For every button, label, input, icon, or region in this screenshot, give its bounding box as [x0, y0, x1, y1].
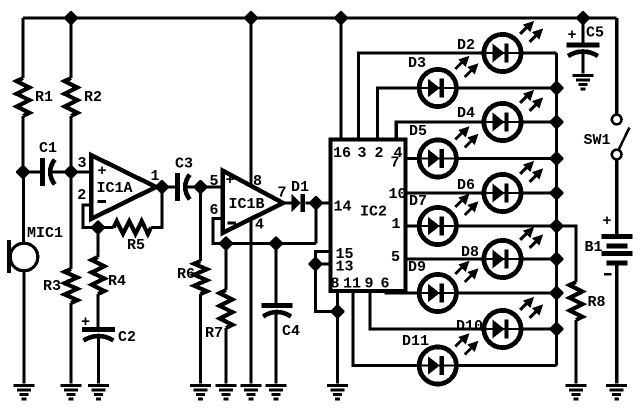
- svg-text:13: 13: [336, 259, 354, 276]
- svg-text:D5: D5: [409, 123, 427, 140]
- wire D7 to bus: [456, 224, 557, 227]
- resistor R3: [65, 269, 78, 303]
- label pin 11 IC2: [343, 276, 361, 293]
- svg-text:7: 7: [278, 185, 287, 202]
- svg-text:D4: D4: [457, 105, 475, 122]
- wire D3 to bus: [456, 86, 557, 89]
- node bus D3: [551, 82, 563, 94]
- svg-text:D11: D11: [402, 333, 429, 350]
- label pin 6 IC1B: [210, 202, 219, 219]
- capacitor C4: [262, 303, 293, 317]
- svg-text:1: 1: [151, 168, 160, 185]
- svg-text:8: 8: [331, 276, 340, 293]
- svg-text:3: 3: [358, 145, 367, 162]
- svg-text:14: 14: [334, 199, 352, 216]
- wire R7 to ground: [224, 328, 227, 384]
- resistor R5: [114, 221, 151, 234]
- label R3: [43, 278, 61, 295]
- wire feedback node to R4: [96, 228, 99, 258]
- label D6: [457, 177, 475, 194]
- wire D10 to bus: [521, 327, 557, 330]
- LED D10: [484, 298, 542, 348]
- wire rail to R2: [69, 18, 72, 78]
- wire top supply rail: [23, 16, 617, 19]
- node C1 left junction: [17, 166, 29, 178]
- microphone MIC1: [7, 240, 38, 273]
- svg-text:8: 8: [253, 173, 262, 190]
- wire pin 15: [316, 252, 338, 312]
- wire rail to R1: [21, 18, 24, 78]
- label pin 13 IC2: [336, 259, 354, 276]
- wire pin 4 to D4: [396, 122, 483, 140]
- label D8: [461, 244, 479, 261]
- label D5: [409, 123, 427, 140]
- wire R1 to node C1 left: [21, 116, 24, 174]
- wire pin 11 to D11: [353, 291, 420, 365]
- svg-text:SW1: SW1: [584, 132, 611, 149]
- wire R8 to ground: [574, 320, 577, 384]
- svg-text:MIC1: MIC1: [27, 225, 63, 242]
- label R2: [84, 89, 102, 106]
- LED D5: [419, 128, 477, 178]
- label C3: [175, 156, 193, 173]
- resistor R1: [17, 78, 30, 116]
- label MIC1: [27, 225, 63, 242]
- resistor R6: [194, 261, 207, 294]
- resistor R4: [92, 257, 105, 294]
- svg-text:4: 4: [255, 217, 264, 234]
- wire R6 to ground: [199, 294, 202, 384]
- label IC1B: [229, 196, 265, 213]
- svg-text:5: 5: [210, 173, 219, 190]
- svg-text:R2: R2: [84, 89, 102, 106]
- svg-text:6: 6: [210, 202, 219, 219]
- label pin 14 IC2: [334, 199, 352, 216]
- svg-text:7: 7: [391, 155, 400, 172]
- ground R8: [566, 384, 587, 400]
- label C5 plus: [568, 27, 577, 44]
- svg-text:IC1A: IC1A: [97, 180, 133, 197]
- svg-text:R5: R5: [127, 237, 145, 254]
- ground R3: [61, 384, 82, 400]
- wire SW1 to B1: [615, 160, 618, 235]
- wire bus to R8: [557, 226, 577, 282]
- svg-text:B1: B1: [585, 239, 603, 256]
- wire pin 1 to D7: [406, 224, 420, 227]
- svg-text:C5: C5: [586, 25, 604, 42]
- wire node to pin 5: [201, 185, 223, 188]
- wire node to C4: [274, 244, 277, 305]
- label B1: [585, 239, 603, 256]
- label pin 15 IC2: [336, 246, 354, 263]
- label C1: [39, 140, 57, 157]
- label D4: [457, 105, 475, 122]
- node bus D8: [551, 253, 563, 265]
- wire D11 to bus: [456, 364, 557, 367]
- switch SW1: [612, 115, 630, 160]
- ground B1: [606, 384, 627, 400]
- node bus D6: [551, 187, 563, 199]
- ground C4: [266, 384, 287, 400]
- label pin 2 IC2: [375, 145, 384, 162]
- ground MIC1: [14, 384, 35, 400]
- wire D6 to bus: [521, 191, 557, 194]
- wire D2 to bus: [521, 51, 557, 54]
- label D9: [408, 259, 426, 276]
- node junction top rail x341: [335, 12, 347, 24]
- wire pin 10 to D6: [406, 191, 484, 194]
- node bus D4: [551, 116, 563, 128]
- wire R3 to ground: [69, 303, 72, 384]
- label pin 7 IC1B: [278, 185, 287, 202]
- label C4: [282, 323, 300, 340]
- node IC1B input: [195, 181, 207, 193]
- svg-text:11: 11: [343, 276, 361, 293]
- node junction top rail x583: [577, 12, 589, 24]
- label D2: [457, 37, 475, 54]
- wire D4 to bus: [521, 120, 557, 123]
- label D3: [408, 55, 426, 72]
- svg-text:R4: R4: [108, 273, 126, 290]
- wire D1 to node: [306, 201, 317, 204]
- wire pin 8 to ground: [336, 291, 339, 383]
- ground C5: [573, 74, 594, 90]
- wire D9 to bus: [456, 291, 557, 294]
- wire pin 13: [316, 262, 331, 265]
- svg-text:D10: D10: [456, 318, 483, 335]
- wire pin 9 to D10: [370, 291, 484, 329]
- node pins 15-13: [310, 258, 322, 270]
- svg-text:5: 5: [391, 249, 400, 266]
- LED D3: [419, 57, 477, 107]
- LED D4: [484, 91, 542, 141]
- LED D11: [419, 335, 477, 385]
- label SW1: [584, 132, 611, 149]
- node R7 tap: [220, 238, 232, 250]
- svg-text:R1: R1: [35, 89, 53, 106]
- label IC1A minus input: [98, 200, 106, 203]
- label D1: [291, 179, 309, 196]
- wire C1 to input node: [50, 170, 71, 173]
- svg-text:16: 16: [333, 145, 351, 162]
- node bus D7: [551, 220, 563, 232]
- wire node to IC2 pin 14: [316, 201, 331, 204]
- svg-text:D7: D7: [409, 193, 427, 210]
- svg-text:+: +: [603, 213, 612, 230]
- label pin 3 IC1A: [78, 155, 87, 172]
- node bus D5: [551, 153, 563, 165]
- op-amp IC1A: [91, 155, 156, 219]
- wire pin 16 to rail: [339, 18, 342, 140]
- ground C2: [88, 384, 109, 400]
- svg-text:C3: C3: [175, 156, 193, 173]
- LED D7: [419, 195, 477, 245]
- label IC1A plus input: [98, 163, 107, 180]
- wire C2 to ground: [97, 338, 100, 384]
- svg-text:R7: R7: [205, 325, 223, 342]
- svg-text:6: 6: [381, 276, 390, 293]
- wire R5 to output riser: [151, 187, 162, 228]
- label IC1B plus input: [226, 172, 235, 189]
- ground R6: [190, 384, 211, 400]
- node bus D9: [551, 287, 563, 299]
- capacitor C5: [567, 43, 600, 57]
- label R8: [588, 294, 606, 311]
- svg-text:IC2: IC2: [360, 204, 387, 221]
- wire C3 to node 5: [185, 185, 201, 188]
- node feedback IC1A: [92, 222, 104, 234]
- label pin 5 IC1B: [210, 173, 219, 190]
- svg-text:D1: D1: [291, 179, 309, 196]
- svg-text:C1: C1: [39, 140, 57, 157]
- wire D8 to bus: [521, 257, 557, 260]
- node input junction: [65, 166, 77, 178]
- wire pin 5 to D8: [406, 257, 484, 260]
- wire pin 1 output: [156, 185, 175, 188]
- ground IC2: [327, 384, 348, 400]
- wire pin 4 to ground: [249, 219, 252, 384]
- label IC1B minus input: [228, 222, 237, 225]
- label pin 4 IC2: [394, 145, 403, 162]
- capacitor C3: [175, 173, 190, 201]
- wire node to R7: [224, 244, 227, 291]
- LED D6: [484, 162, 542, 212]
- wire pin 2 feedback: [83, 205, 98, 228]
- wire node to R5: [98, 226, 114, 229]
- diode D1: [292, 194, 305, 212]
- svg-text:C4: C4: [282, 323, 300, 340]
- label C2: [118, 329, 136, 346]
- capacitor C2: [82, 327, 115, 341]
- label C2 plus: [81, 314, 90, 331]
- svg-text:1: 1: [392, 216, 401, 233]
- wire pin 2 to D3: [377, 88, 419, 140]
- resistor R7: [220, 290, 233, 328]
- node pin 8 ground tie: [332, 306, 344, 318]
- label IC2: [360, 204, 387, 221]
- wire pin 6 to D9: [386, 291, 420, 293]
- wire C5 to ground: [581, 53, 584, 74]
- svg-text:R6: R6: [177, 266, 195, 283]
- ground pin 4 IC1B: [241, 384, 262, 400]
- label pin 7 IC2: [391, 155, 400, 172]
- wire node down to MIC1: [22, 172, 25, 244]
- wire rail to C5: [581, 18, 584, 43]
- label R5: [127, 237, 145, 254]
- wire pin 7 to D1: [283, 201, 292, 204]
- ground R7: [216, 384, 237, 400]
- svg-text:C2: C2: [118, 329, 136, 346]
- wire input node to pin 3: [71, 170, 91, 173]
- label pin 1 IC2: [392, 216, 401, 233]
- wire C4 to ground: [274, 314, 277, 384]
- wire pin 8 to rail: [249, 18, 252, 186]
- wire pin 3 to D2: [358, 53, 483, 140]
- LED D8: [484, 228, 542, 278]
- label R7: [205, 325, 223, 342]
- label pin 6 IC2: [381, 276, 390, 293]
- svg-text:2: 2: [375, 145, 384, 162]
- label pin 8 IC1B: [253, 173, 262, 190]
- wire node to C1: [23, 170, 40, 173]
- resistor R8: [570, 282, 583, 320]
- label B1 plus: [603, 213, 612, 230]
- op-amp IC1B: [223, 171, 284, 234]
- label IC1A: [97, 180, 133, 197]
- wire MIC1 to ground: [22, 271, 25, 384]
- label pin 8 IC2: [331, 276, 340, 293]
- wire R2 to node input: [69, 116, 72, 174]
- svg-text:D6: D6: [457, 177, 475, 194]
- label D11: [402, 333, 429, 350]
- label D10: [456, 318, 483, 335]
- node junction top rail x71: [65, 12, 77, 24]
- node junction top rail x251: [245, 12, 257, 24]
- label C5: [586, 25, 604, 42]
- label pin 2 IC1A: [77, 187, 86, 204]
- LED D9: [419, 262, 477, 312]
- label pin 1 IC1A: [151, 168, 160, 185]
- svg-text:+: +: [568, 27, 577, 44]
- wire input node down to R3: [69, 172, 72, 269]
- node bus D10: [551, 323, 563, 335]
- label D7: [409, 193, 427, 210]
- wire LED cathode bus: [555, 53, 558, 366]
- svg-text:10: 10: [389, 186, 407, 203]
- label pin 3 IC2: [358, 145, 367, 162]
- svg-text:+: +: [98, 163, 107, 180]
- resistor R2: [65, 78, 78, 116]
- wire rail corner to SW1: [615, 18, 618, 115]
- node C4 tap: [270, 238, 282, 250]
- wire pin 6 feedback: [213, 219, 316, 244]
- label R4: [108, 273, 126, 290]
- battery B1: [602, 234, 633, 266]
- svg-text:2: 2: [77, 187, 86, 204]
- label pin 9 IC2: [365, 276, 374, 293]
- svg-text:D9: D9: [408, 259, 426, 276]
- label pin 5 IC2: [391, 249, 400, 266]
- svg-text:D8: D8: [461, 244, 479, 261]
- wire B1 to ground: [615, 266, 618, 384]
- label B1 minus: [604, 273, 612, 276]
- label pin 10 IC2: [389, 186, 407, 203]
- svg-text:D3: D3: [408, 55, 426, 72]
- label R6: [177, 266, 195, 283]
- node D1 output: [310, 197, 322, 209]
- svg-text:3: 3: [78, 155, 87, 172]
- svg-text:9: 9: [365, 276, 374, 293]
- capacitor C1: [40, 158, 55, 186]
- svg-text:D2: D2: [457, 37, 475, 54]
- wire D5 to bus: [456, 157, 557, 160]
- svg-text:IC1B: IC1B: [229, 196, 265, 213]
- svg-text:R8: R8: [588, 294, 606, 311]
- svg-text:+: +: [226, 172, 235, 189]
- label pin 16 IC2: [333, 145, 351, 162]
- label R1: [35, 89, 53, 106]
- wire node down to R6: [199, 187, 202, 261]
- wire node down to feedback: [314, 203, 317, 244]
- IC U2 body: [331, 140, 406, 292]
- node output IC1A: [156, 181, 168, 193]
- label pin 4 IC1B: [255, 217, 264, 234]
- wire pin 7 to D5: [406, 157, 420, 160]
- wire R4 to C2: [96, 294, 99, 328]
- svg-text:R3: R3: [43, 278, 61, 295]
- LED D2: [484, 22, 542, 72]
